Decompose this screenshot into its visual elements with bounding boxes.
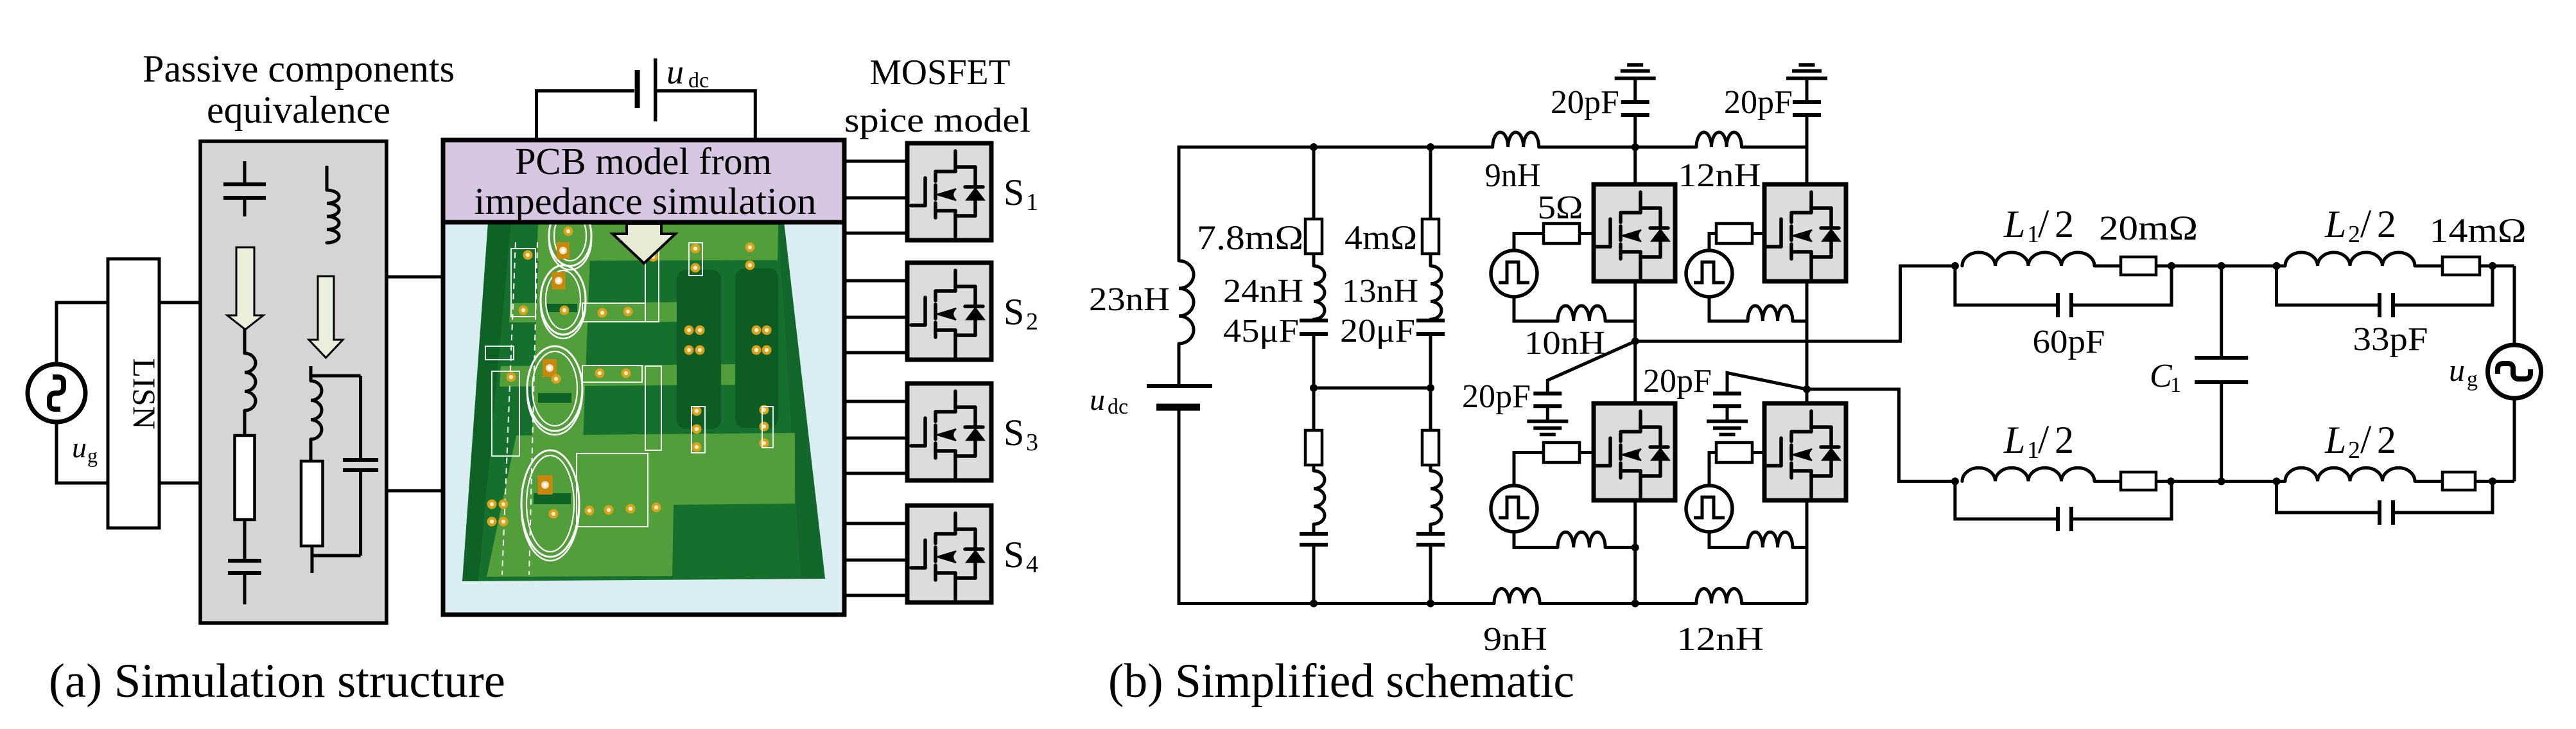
svg-text:dc: dc bbox=[1108, 395, 1128, 419]
svg-text:5Ω: 5Ω bbox=[1538, 189, 1583, 226]
svg-text:7.8mΩ: 7.8mΩ bbox=[1197, 218, 1303, 257]
svg-text:4: 4 bbox=[1026, 551, 1038, 578]
svg-text:equivalence: equivalence bbox=[207, 89, 390, 131]
svg-text:(b) Simplified schematic: (b) Simplified schematic bbox=[1108, 654, 1574, 708]
pulse source (lower-left gate) bbox=[1491, 486, 1537, 532]
wire bbox=[1312, 334, 1316, 388]
wire bbox=[1514, 532, 1558, 547]
node bbox=[2273, 262, 2281, 270]
wire bbox=[1605, 546, 1635, 549]
wire bbox=[1540, 602, 1696, 605]
resistor (lower branch 2) bbox=[1422, 430, 1439, 465]
wire bbox=[1955, 266, 2058, 305]
svg-text:L: L bbox=[2324, 419, 2346, 461]
svg-text:1: 1 bbox=[2170, 373, 2181, 397]
wire bbox=[1178, 344, 1181, 386]
node bbox=[2489, 477, 2496, 485]
wire bbox=[57, 303, 108, 364]
inductor (lower-right source) bbox=[1748, 532, 1793, 547]
svg-text:13nH: 13nH bbox=[1342, 273, 1418, 310]
wire bbox=[387, 276, 445, 279]
wire bbox=[1314, 387, 1431, 390]
wire bbox=[844, 594, 907, 597]
battery udc short plate bbox=[1156, 404, 1200, 411]
mosfet S2 box bbox=[907, 263, 991, 360]
node bbox=[1427, 384, 1434, 392]
equivalent L model: inductor bbox=[309, 366, 313, 381]
svg-text:g: g bbox=[2467, 367, 2478, 391]
svg-text:(a) Simulation structure: (a) Simulation structure bbox=[49, 654, 505, 708]
svg-text:24nH: 24nH bbox=[1223, 273, 1303, 310]
svg-text:1: 1 bbox=[1026, 189, 1038, 216]
node (phase B) bbox=[1803, 385, 1811, 393]
pulse source (lower-right gate) bbox=[1686, 486, 1732, 532]
svg-text:u: u bbox=[72, 431, 87, 464]
wire bbox=[2513, 398, 2516, 481]
node bbox=[1632, 143, 1639, 151]
wire bbox=[1312, 524, 1316, 534]
wire bbox=[1514, 453, 1544, 486]
svg-text:S: S bbox=[1004, 171, 1024, 213]
node bbox=[1427, 143, 1434, 151]
svg-text:20pF: 20pF bbox=[1462, 378, 1531, 415]
wire bbox=[1514, 234, 1544, 251]
svg-text:u: u bbox=[1090, 383, 1105, 417]
capacitor 20uF bbox=[1416, 319, 1445, 322]
inductor 12nH (top) bbox=[1696, 132, 1742, 147]
wire bbox=[2393, 481, 2493, 513]
passive components equivalence box bbox=[200, 141, 387, 623]
wire bbox=[309, 439, 313, 461]
wire bbox=[844, 197, 907, 200]
node bbox=[1632, 600, 1639, 608]
wire (diagonal) bbox=[1547, 341, 1635, 393]
wire bbox=[844, 522, 907, 525]
inductor L1/2 (upper) bbox=[1962, 252, 2094, 266]
svg-text:spice model: spice model bbox=[844, 101, 1031, 139]
capacitor (lower branch 1) bbox=[1300, 532, 1328, 536]
wire bbox=[1605, 320, 1635, 323]
svg-text:2: 2 bbox=[2348, 437, 2360, 464]
inductor 10nH (upper-left source) bbox=[1558, 306, 1605, 321]
wire bbox=[844, 559, 907, 562]
wire bbox=[1633, 78, 1637, 102]
resistor 5ohm bbox=[1544, 224, 1580, 243]
wire bbox=[2094, 480, 2121, 483]
resistor (lower branch 1) bbox=[1305, 430, 1322, 465]
wire bbox=[1793, 546, 1807, 549]
resistor 14mOhm bbox=[2442, 257, 2480, 275]
wire bbox=[1806, 281, 1809, 389]
svg-text:L: L bbox=[2324, 203, 2346, 245]
ac source ug (b) bbox=[2488, 345, 2541, 398]
wire bbox=[2415, 265, 2442, 268]
wire bbox=[1312, 147, 1316, 219]
wire bbox=[1429, 254, 1432, 266]
wire bbox=[2393, 266, 2493, 305]
svg-text:20pF: 20pF bbox=[1643, 363, 1712, 400]
svg-text:9nH: 9nH bbox=[1483, 621, 1547, 658]
wire bbox=[1179, 147, 1493, 261]
wire bbox=[2071, 481, 2171, 519]
svg-text:2: 2 bbox=[2377, 203, 2396, 245]
wire bbox=[1546, 406, 1549, 421]
svg-text:dc: dc bbox=[688, 69, 709, 92]
equivalent C model: resistor bbox=[235, 435, 255, 520]
wire bbox=[844, 160, 907, 163]
svg-text:LISN: LISN bbox=[126, 358, 162, 429]
equivalent L model: parallel capacitor bbox=[359, 376, 362, 458]
inductor 12nH (bottom) bbox=[1696, 589, 1742, 604]
node bbox=[1310, 600, 1318, 608]
svg-text:u: u bbox=[666, 53, 684, 91]
svg-text:2: 2 bbox=[2377, 419, 2396, 461]
resistor 20mOhm bbox=[2121, 257, 2156, 275]
node bbox=[2273, 477, 2281, 485]
svg-text:2: 2 bbox=[1026, 308, 1038, 335]
resistor (lower-right gate) bbox=[1716, 443, 1752, 462]
wire bbox=[2071, 266, 2171, 305]
svg-text:33pF: 33pF bbox=[2353, 321, 2428, 358]
wire bbox=[1633, 281, 1637, 341]
wire bbox=[2156, 265, 2285, 268]
node bbox=[2168, 262, 2175, 270]
wire bbox=[844, 400, 907, 403]
svg-text:L: L bbox=[2003, 203, 2025, 245]
svg-text:20mΩ: 20mΩ bbox=[2099, 209, 2198, 247]
wire bbox=[243, 573, 247, 604]
svg-text:g: g bbox=[87, 444, 98, 467]
equivalent C model: capacitor bbox=[228, 559, 261, 563]
wire bbox=[2094, 265, 2121, 268]
equivalent C model: inductor bbox=[243, 329, 247, 353]
wire bbox=[1633, 115, 1637, 184]
wire bbox=[2277, 266, 2380, 305]
inductor L2/2 (lower) bbox=[2285, 468, 2415, 481]
wire bbox=[1955, 481, 2058, 519]
LISN box bbox=[108, 259, 159, 528]
inductor 24nH bbox=[1314, 266, 1325, 319]
wire bbox=[1179, 407, 1494, 604]
resistor (lower right filter) bbox=[2442, 472, 2475, 490]
capacitor 33pF bbox=[2378, 293, 2381, 317]
svg-text:2: 2 bbox=[2055, 203, 2074, 245]
svg-text:12nH: 12nH bbox=[1678, 157, 1761, 194]
wire bbox=[537, 91, 635, 141]
svg-text:10nH: 10nH bbox=[1524, 325, 1605, 362]
wire bbox=[1709, 532, 1748, 547]
wire bbox=[1806, 389, 1809, 403]
pulse source (upper-left gate) bbox=[1491, 250, 1537, 297]
wire bbox=[1807, 389, 1955, 481]
wire bbox=[844, 437, 907, 440]
battery udc long plate bbox=[1147, 384, 1212, 388]
node (phase A) bbox=[1632, 337, 1639, 345]
wire bbox=[159, 301, 201, 304]
resistor 7.8mOhm bbox=[1305, 219, 1322, 254]
wire bbox=[1429, 545, 1432, 604]
inductor 23nH bbox=[1179, 261, 1194, 344]
wire bbox=[1312, 388, 1316, 430]
node bbox=[2218, 262, 2225, 270]
wire bbox=[311, 556, 314, 573]
wire bbox=[1429, 524, 1432, 534]
ground (mid right) bbox=[1707, 419, 1748, 423]
svg-text:/: / bbox=[2360, 418, 2372, 462]
equivalent L model: resistor bbox=[301, 461, 323, 546]
wire bbox=[1752, 232, 1764, 235]
svg-text:2: 2 bbox=[2055, 419, 2074, 461]
mosfet (upper-right) bbox=[1764, 184, 1846, 281]
node bbox=[1951, 477, 1959, 485]
wire bbox=[1635, 266, 1955, 341]
node bbox=[1951, 262, 1959, 270]
svg-text:S: S bbox=[1004, 534, 1024, 575]
inductor symbol (ideal L) bbox=[326, 166, 329, 190]
wire bbox=[2220, 266, 2223, 358]
ac source ug (grid source) bbox=[28, 364, 85, 422]
node bbox=[1427, 600, 1434, 608]
wire bbox=[844, 316, 907, 319]
wire bbox=[1752, 451, 1764, 454]
wire bbox=[1312, 319, 1316, 321]
wire bbox=[844, 472, 907, 475]
wire bbox=[2156, 480, 2285, 483]
wire bbox=[2220, 382, 2223, 481]
mosfet S3 box bbox=[907, 383, 991, 480]
wire bbox=[1633, 500, 1637, 604]
wire bbox=[1726, 406, 1729, 421]
svg-text:S: S bbox=[1004, 291, 1024, 333]
wire bbox=[1539, 146, 1696, 149]
wire bbox=[1580, 451, 1594, 454]
wire bbox=[1806, 500, 1809, 604]
capacitor 45uF bbox=[1300, 319, 1328, 322]
capacitor 20pF (top left) bbox=[1621, 100, 1649, 104]
inductor 13nH bbox=[1431, 266, 1441, 319]
svg-text:/: / bbox=[2360, 202, 2372, 246]
wire bbox=[1709, 453, 1716, 486]
node bbox=[1632, 543, 1639, 551]
svg-text:23nH: 23nH bbox=[1089, 281, 1170, 318]
svg-text:Passive components: Passive components bbox=[143, 48, 455, 90]
svg-text:20pF: 20pF bbox=[1551, 84, 1619, 121]
pulse source (upper-right gate) bbox=[1686, 250, 1732, 297]
node bbox=[1310, 384, 1318, 392]
wire bbox=[312, 554, 361, 558]
wire bbox=[387, 489, 445, 493]
wire bbox=[2475, 480, 2514, 483]
svg-text:PCB model from: PCB model from bbox=[515, 140, 772, 182]
node bbox=[2167, 477, 2175, 485]
inductor 9nH (top) bbox=[1493, 132, 1539, 147]
wire bbox=[1312, 545, 1316, 604]
wire bbox=[1429, 388, 1432, 430]
wire bbox=[1312, 254, 1316, 266]
mosfet (lower-left) bbox=[1594, 403, 1675, 500]
wire bbox=[1429, 334, 1432, 388]
svg-text:/: / bbox=[2038, 202, 2049, 246]
svg-text:u: u bbox=[2449, 352, 2465, 388]
battery udc long plate bbox=[654, 58, 657, 121]
wire bbox=[2513, 266, 2516, 345]
wire bbox=[2277, 481, 2380, 513]
mosfet S1 box bbox=[907, 143, 991, 240]
ground (top right) bbox=[1786, 76, 1827, 80]
capacitor 20pF (top right) bbox=[1793, 100, 1821, 104]
capacitor (lower left filter) bbox=[2056, 507, 2060, 531]
svg-text:9nH: 9nH bbox=[1485, 157, 1541, 194]
capacitor (lower right filter) bbox=[2378, 500, 2381, 525]
capacitor symbol (ideal C) bbox=[243, 161, 247, 182]
inductor (lower-left source) bbox=[1558, 532, 1605, 547]
svg-text:/: / bbox=[2038, 418, 2049, 462]
inductor 9nH (bottom) bbox=[1494, 589, 1540, 604]
mosfet (lower-right) bbox=[1764, 403, 1846, 500]
wire bbox=[1709, 297, 1748, 321]
svg-text:MOSFET: MOSFET bbox=[870, 53, 1011, 92]
capacitor 60pF bbox=[2056, 293, 2060, 317]
svg-text:S: S bbox=[1004, 412, 1024, 453]
wire bbox=[1709, 234, 1716, 251]
wire bbox=[657, 91, 755, 141]
wire bbox=[57, 422, 108, 483]
svg-text:impedance simulation: impedance simulation bbox=[474, 180, 817, 222]
svg-text:C: C bbox=[2150, 358, 2173, 394]
wire bbox=[1793, 320, 1807, 323]
capacitor 20pF (mid right) bbox=[1713, 392, 1741, 396]
wire bbox=[844, 232, 907, 235]
node bbox=[1310, 143, 1318, 151]
capacitor C1 bbox=[2195, 356, 2248, 360]
resistor (upper-right gate) bbox=[1716, 224, 1752, 243]
wire bbox=[844, 351, 907, 355]
ground (top left) bbox=[1615, 76, 1656, 80]
inductor L1/2 (lower) bbox=[1962, 468, 2094, 481]
node bbox=[2489, 262, 2496, 270]
wire bbox=[2480, 265, 2514, 268]
wire bbox=[1429, 465, 1432, 471]
wire bbox=[243, 410, 247, 435]
inductor (lower branch 2) bbox=[1431, 471, 1441, 524]
PCB banner bbox=[443, 140, 844, 222]
wire bbox=[311, 374, 361, 378]
wire (diagonal) bbox=[1727, 373, 1807, 394]
arrow (L equivalence) bbox=[309, 276, 343, 358]
wire bbox=[1742, 602, 1807, 605]
resistor 4mOhm bbox=[1422, 219, 1439, 254]
resistor (lower-left gate) bbox=[1544, 443, 1580, 462]
inductor L2/2 (upper) bbox=[2285, 252, 2415, 266]
wire bbox=[1742, 146, 1807, 149]
inductor (lower branch 1) bbox=[1314, 471, 1325, 524]
svg-text:60pF: 60pF bbox=[2033, 324, 2105, 360]
capacitor 20pF (mid left) bbox=[1533, 392, 1562, 396]
wire bbox=[1514, 297, 1558, 321]
wire bbox=[844, 279, 907, 283]
ground (mid left) bbox=[1527, 419, 1568, 423]
mosfet (upper-left) bbox=[1594, 184, 1675, 281]
PCB box (light blue) bbox=[443, 140, 844, 615]
wire bbox=[243, 520, 247, 561]
battery udc short plate bbox=[635, 70, 640, 108]
arrow (C equivalence) bbox=[227, 247, 263, 329]
svg-text:3: 3 bbox=[1026, 429, 1038, 456]
svg-text:4mΩ: 4mΩ bbox=[1345, 218, 1417, 257]
svg-text:2: 2 bbox=[2348, 221, 2360, 248]
svg-text:20pF: 20pF bbox=[1724, 84, 1793, 121]
svg-text:14mΩ: 14mΩ bbox=[2430, 211, 2527, 250]
mosfet S4 box bbox=[907, 505, 991, 602]
wire bbox=[1633, 341, 1637, 403]
svg-text:L: L bbox=[2003, 419, 2025, 461]
capacitor (lower branch 2) bbox=[1416, 532, 1445, 536]
wire bbox=[159, 482, 201, 485]
arrow into PCB bbox=[613, 224, 675, 263]
inductor (upper-right source) bbox=[1748, 306, 1793, 321]
wire bbox=[1580, 232, 1594, 235]
wire bbox=[2415, 480, 2442, 483]
resistor (lower left filter) bbox=[2121, 472, 2156, 490]
wire bbox=[1806, 115, 1809, 184]
wire bbox=[1806, 78, 1809, 102]
wire bbox=[1429, 147, 1432, 219]
svg-text:45μF: 45μF bbox=[1223, 313, 1299, 349]
wire bbox=[1312, 465, 1316, 471]
svg-text:12nH: 12nH bbox=[1676, 621, 1764, 658]
wire bbox=[311, 546, 314, 556]
svg-text:20μF: 20μF bbox=[1340, 313, 1415, 349]
node bbox=[2218, 477, 2225, 485]
